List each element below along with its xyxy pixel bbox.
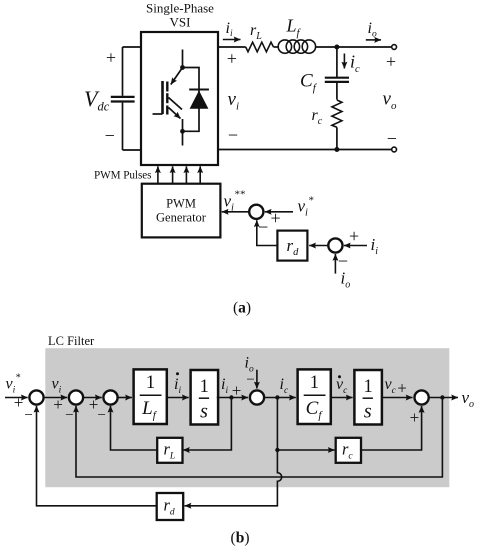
wire Vdc left lower xyxy=(122,103,124,150)
label plus vi xyxy=(227,48,237,68)
block 1/Cf xyxy=(298,369,331,424)
svg-text:−: − xyxy=(228,125,238,145)
capacitor Vdc xyxy=(111,97,135,102)
svg-text:Generator: Generator xyxy=(156,211,207,225)
wire diode branch xyxy=(183,68,200,132)
svg-text:−: − xyxy=(258,217,268,237)
label vo (b) xyxy=(462,388,475,410)
summing junction A1 xyxy=(249,205,263,219)
wire output bottom xyxy=(218,149,394,151)
wire B1 to B2 xyxy=(44,397,68,399)
svg-text:VSI: VSI xyxy=(170,15,191,30)
label vc dot xyxy=(336,375,348,396)
label (a) xyxy=(233,300,251,317)
wire rL to B3 xyxy=(111,406,158,450)
label plus B5 bottom xyxy=(410,408,420,427)
svg-text:−: − xyxy=(105,126,115,146)
svg-text:+: + xyxy=(14,393,24,412)
LC Filter shaded region xyxy=(45,348,449,487)
label minus B2 xyxy=(65,407,73,423)
svg-text:PWM Pulses: PWM Pulses xyxy=(94,170,152,182)
label minus Vdc xyxy=(105,126,115,146)
label plus A2 xyxy=(349,226,359,246)
svg-text:−: − xyxy=(24,407,32,423)
wire 1/Cf to 1/s second xyxy=(332,397,353,399)
node bottom emitter junction xyxy=(180,129,185,134)
wire input to B1 xyxy=(5,397,28,399)
block rL (b) xyxy=(157,438,182,463)
wire ic node down xyxy=(276,398,278,451)
wire Lf to node xyxy=(316,46,395,48)
svg-text:s: s xyxy=(364,401,372,423)
wire io input A2 xyxy=(334,254,336,274)
label io input xyxy=(341,269,351,291)
wire PWM pulse arrow 3 xyxy=(185,166,187,183)
wire ii node down to rL xyxy=(183,398,231,451)
label ii (b) xyxy=(221,376,228,396)
svg-text:−: − xyxy=(97,407,105,423)
wire Vdc left upper xyxy=(122,47,124,96)
summing junction B5 xyxy=(415,390,429,404)
node ic feedback junction xyxy=(275,448,279,452)
node filter bottom xyxy=(334,147,339,152)
label minus B4 xyxy=(246,372,254,388)
wire PWM pulse arrow 1 xyxy=(157,166,159,183)
svg-text:LC Filter: LC Filter xyxy=(48,334,95,348)
label io (b) xyxy=(245,355,254,375)
svg-text:−: − xyxy=(65,407,73,423)
wire ii input A2 xyxy=(344,245,367,247)
label vi star input (b) xyxy=(6,373,21,396)
wire 1/s to B5 xyxy=(382,397,413,399)
block rd (b) xyxy=(157,493,184,520)
wire Vdc bottom xyxy=(123,149,142,151)
svg-text:Single-Phase: Single-Phase xyxy=(146,1,214,16)
wire summing A1 to PWM box xyxy=(222,211,250,213)
wire bottom emitter lead xyxy=(182,119,184,131)
label plus B3 xyxy=(89,395,99,414)
label plus B1 xyxy=(14,393,24,412)
svg-text:+: + xyxy=(349,226,359,246)
label vc (b) xyxy=(385,376,397,396)
wire vo feedback to B2 xyxy=(76,398,442,478)
terminal bottom right xyxy=(392,147,397,152)
label Single-Phase VSI xyxy=(146,1,214,30)
resistor rL xyxy=(246,42,274,52)
label ic arrow xyxy=(344,51,360,75)
label minus B1 xyxy=(24,407,32,423)
wire 1/s to B4 xyxy=(217,397,248,399)
resistor rc xyxy=(332,100,342,127)
label PWM Pulses xyxy=(94,170,152,182)
label minus vi xyxy=(228,125,238,145)
svg-text:−: − xyxy=(246,372,254,388)
wire rC to B5 xyxy=(361,406,422,450)
VSI box U1 xyxy=(141,32,218,165)
label LC Filter xyxy=(48,334,95,348)
wire B2 to B3 xyxy=(83,397,102,399)
label vi star star xyxy=(224,189,246,214)
label vo xyxy=(383,89,397,113)
block 1/Lf xyxy=(134,369,167,424)
label plus Vdc xyxy=(106,47,116,67)
svg-text:+: + xyxy=(397,379,407,398)
label ii input xyxy=(371,235,379,257)
label plus B2 xyxy=(53,395,63,414)
wire node to cap xyxy=(336,47,338,78)
svg-text:+: + xyxy=(106,47,116,67)
label rc xyxy=(312,107,323,127)
transistor Q1 (IGBT) xyxy=(153,68,183,119)
wire ic down with hop to rd xyxy=(185,450,282,506)
svg-text:(b): (b) xyxy=(231,530,250,547)
label rL xyxy=(250,22,262,42)
label Cf xyxy=(300,71,318,95)
wire rL to Lf xyxy=(274,46,279,48)
label vi (b) xyxy=(52,376,62,396)
node vo xyxy=(440,395,444,399)
PWM Generator box xyxy=(142,184,221,238)
label plus A1 xyxy=(271,208,281,228)
svg-text:+: + xyxy=(227,48,237,68)
diode D1 xyxy=(189,90,209,109)
svg-text:+: + xyxy=(271,208,281,228)
summing junction A2 xyxy=(328,238,342,252)
svg-text:PWM: PWM xyxy=(166,197,196,211)
svg-text:(a): (a) xyxy=(233,300,251,317)
summing junction B4 xyxy=(250,390,264,404)
node ic (b) xyxy=(275,395,279,399)
svg-text:s: s xyxy=(200,401,208,423)
label Lf xyxy=(286,16,302,40)
wire rd to summing A1 xyxy=(257,220,278,245)
label minus vo xyxy=(387,128,397,148)
label minus A2 xyxy=(338,251,348,271)
summing junction B1 xyxy=(29,390,43,404)
node top collector junction xyxy=(180,65,185,70)
label ii dot xyxy=(174,372,181,396)
svg-text:1: 1 xyxy=(363,377,372,397)
wire PWM pulse arrow 2 xyxy=(172,166,174,183)
label minus B3 xyxy=(97,407,105,423)
block rd (part a) xyxy=(277,231,307,261)
block rC (b) xyxy=(336,438,361,463)
wire B5 to vo xyxy=(429,397,458,399)
wire top lead inside VSI xyxy=(182,50,184,68)
terminal top right xyxy=(392,45,397,50)
capacitor Cf xyxy=(325,78,349,82)
label (b) xyxy=(231,530,250,547)
svg-text:1: 1 xyxy=(200,377,209,397)
label plus B5 left xyxy=(397,379,407,398)
node filter top xyxy=(334,45,339,50)
wire cap to rc xyxy=(336,82,338,100)
wire 1/Lf to 1/s xyxy=(168,397,189,399)
svg-text:+: + xyxy=(386,51,396,71)
label io current arrow xyxy=(366,20,381,40)
svg-text:−: − xyxy=(387,128,397,148)
wire B3 to 1/Lf xyxy=(118,397,132,399)
block 1/s second xyxy=(354,370,382,425)
svg-text:1: 1 xyxy=(146,373,155,393)
summing junction B3 xyxy=(103,390,117,404)
label ii current arrow xyxy=(223,20,241,40)
wire summing A2 to rd xyxy=(309,245,328,247)
wire rd to B1 xyxy=(37,406,157,506)
svg-text:+: + xyxy=(53,395,63,414)
wire ic to rC xyxy=(277,449,334,451)
label plus vo xyxy=(386,51,396,71)
wire rc to bottom xyxy=(336,127,338,149)
wire Vdc top xyxy=(123,46,142,48)
wire bottom lead inside VSI xyxy=(182,131,184,145)
svg-text:1: 1 xyxy=(310,373,319,393)
label plus B4 left xyxy=(232,381,242,400)
wire io into B4 xyxy=(256,370,258,389)
wire output top left xyxy=(218,46,246,48)
label vi star xyxy=(298,195,314,219)
label Vdc xyxy=(84,86,110,114)
summing junction B2 xyxy=(69,390,83,404)
label ic (b) xyxy=(280,376,289,396)
label minus A1 xyxy=(258,217,268,237)
label vi xyxy=(228,89,240,113)
wire B4 to 1/Cf xyxy=(264,397,296,399)
svg-text:+: + xyxy=(410,408,420,427)
wire vi star input xyxy=(265,211,293,213)
block 1/s first xyxy=(191,370,219,425)
node ii (b) xyxy=(229,395,233,399)
wire PWM pulse arrow 4 xyxy=(199,166,201,183)
inductor Lf xyxy=(278,40,315,53)
